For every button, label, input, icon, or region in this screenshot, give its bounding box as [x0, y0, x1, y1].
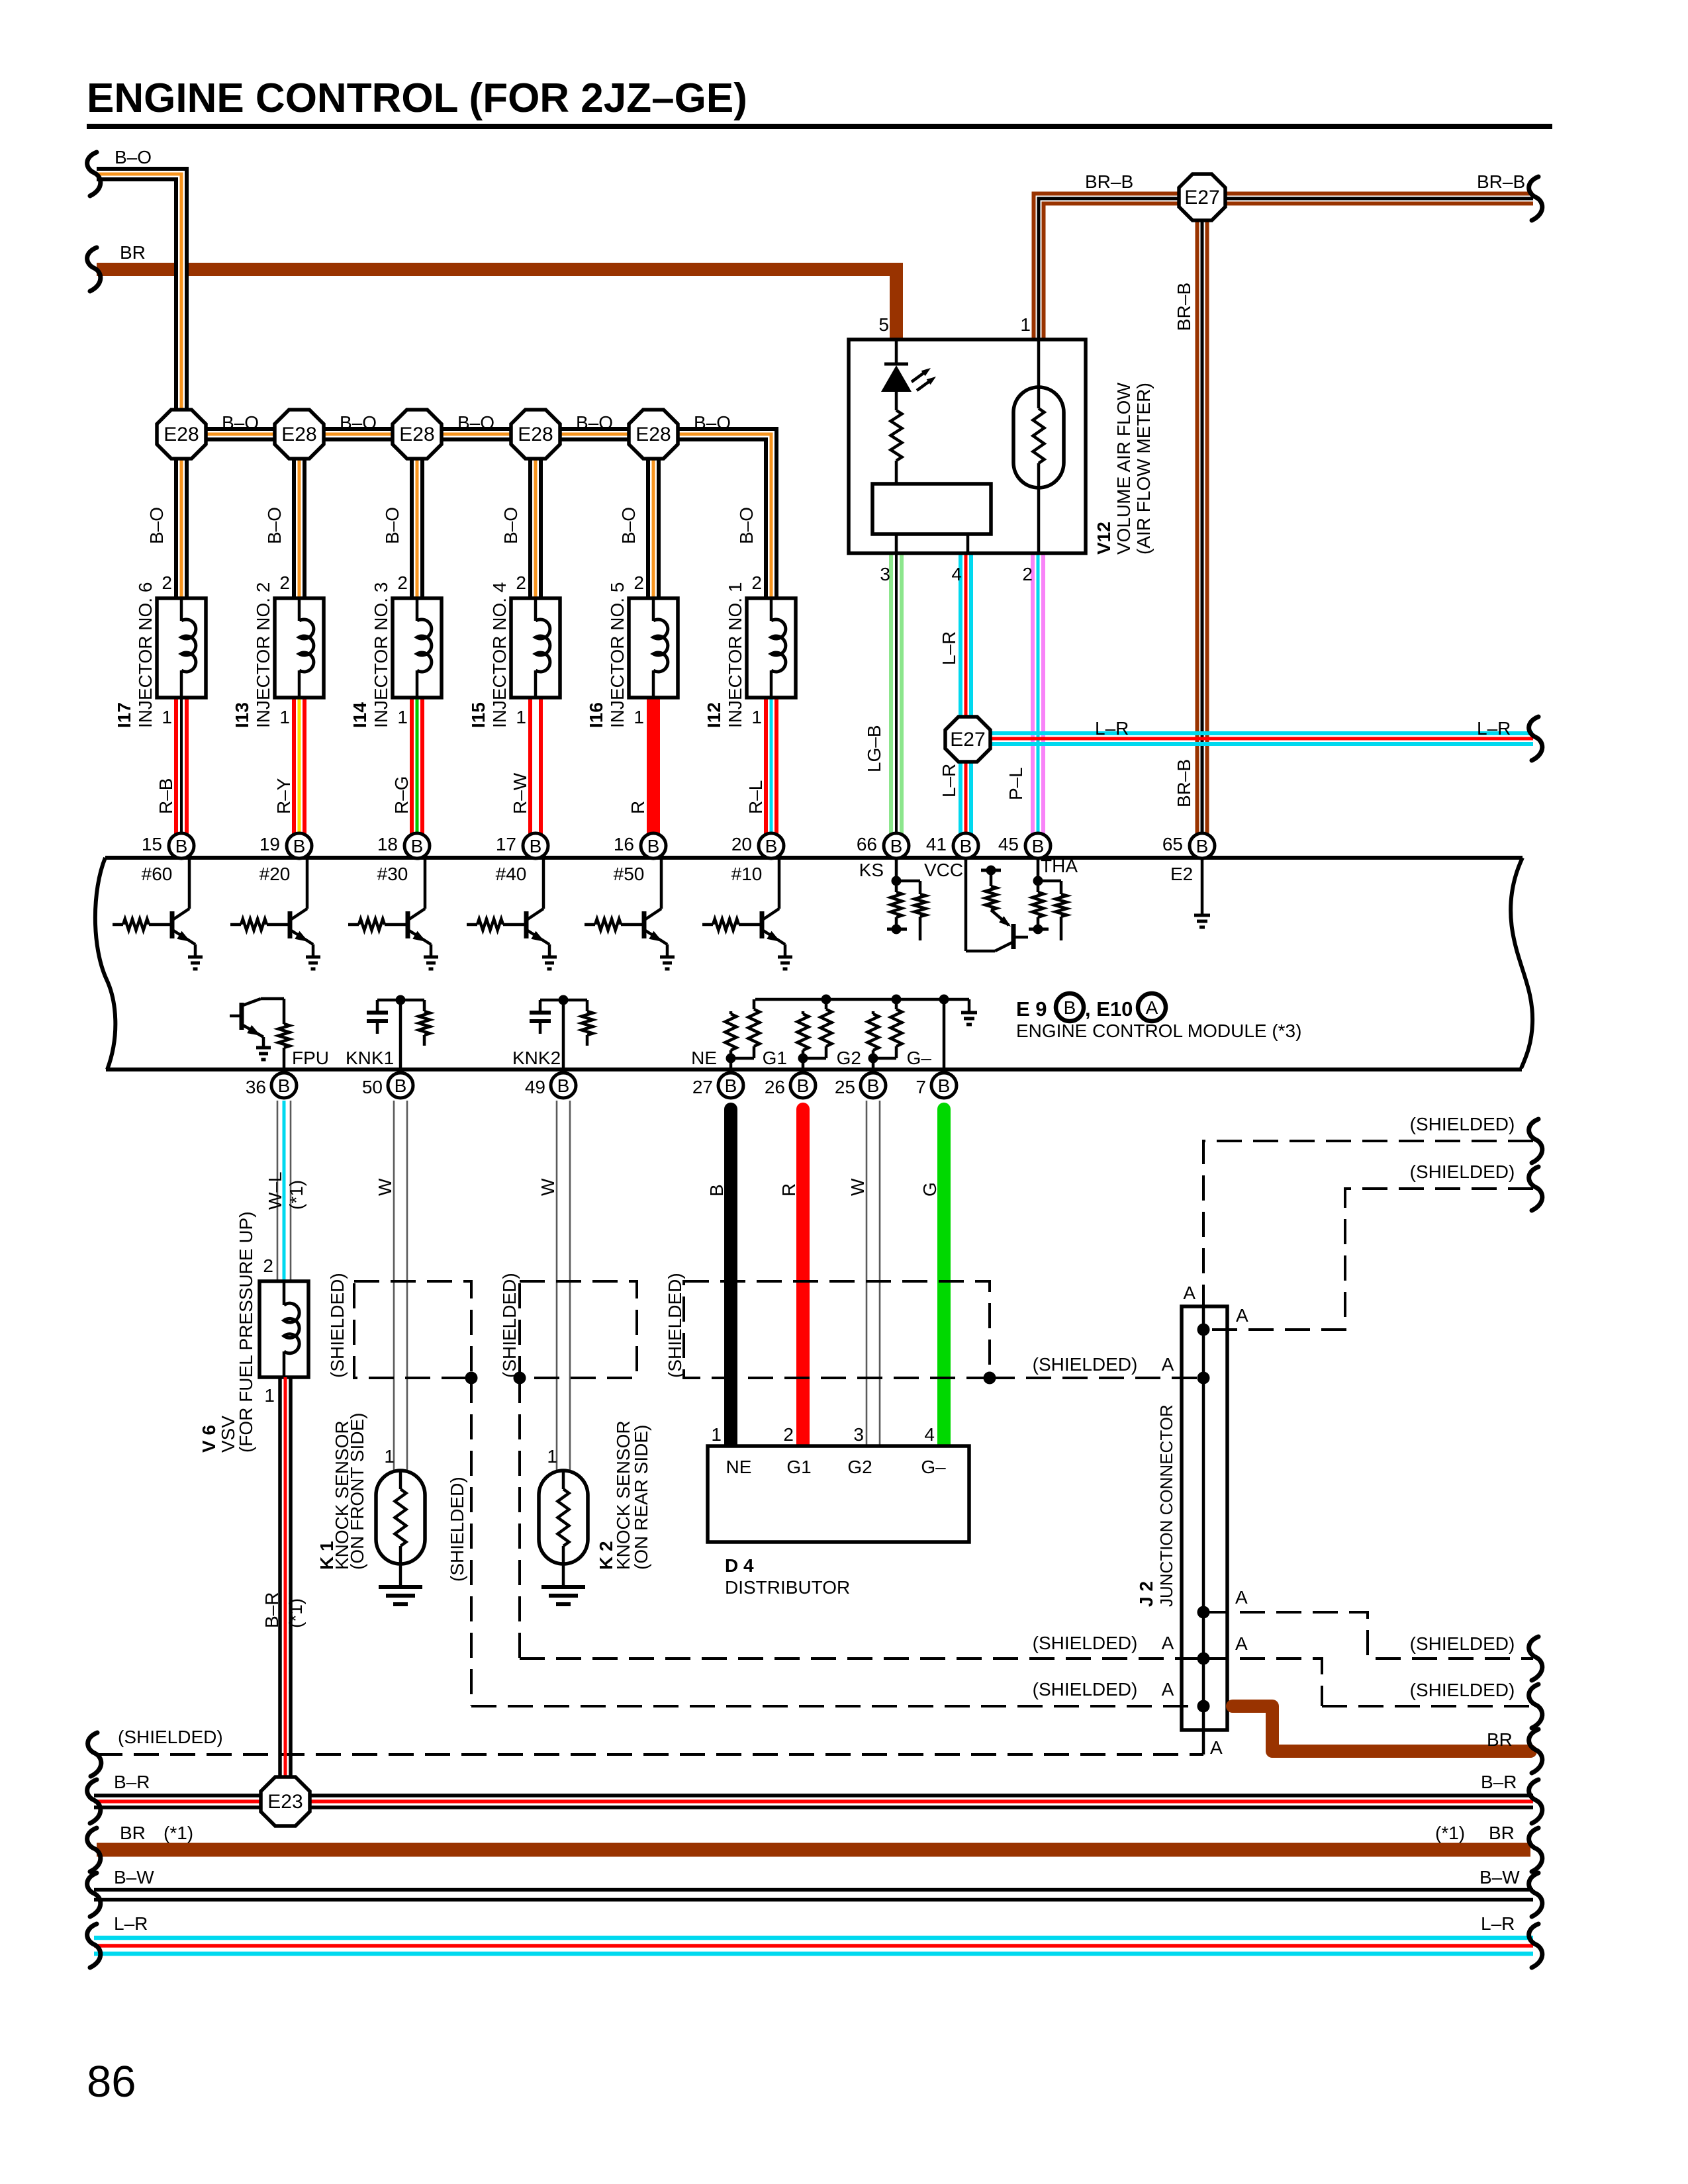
svg-text:(SHIELDED): (SHIELDED) — [1033, 1679, 1138, 1700]
svg-text:1: 1 — [751, 707, 762, 727]
injector I17 wire to ECM — [174, 698, 178, 835]
shield box knock sensor 1 — [354, 1281, 471, 1378]
ECM NE input network — [729, 1011, 733, 1014]
svg-text:E28: E28 — [399, 424, 434, 445]
ECM pin 50 circle B — [388, 1073, 413, 1098]
svg-text:(SHIELDED): (SHIELDED) — [1410, 1114, 1515, 1134]
svg-text:B: B — [938, 1075, 951, 1096]
svg-text:B: B — [530, 836, 542, 856]
svg-text:E 9: E 9 — [1016, 997, 1047, 1021]
resistor in V12 left branch — [891, 410, 902, 461]
ECM THA input network — [1037, 858, 1040, 892]
LED photodiode in V12 — [895, 340, 898, 364]
ECM KNK2 input network — [540, 999, 587, 1002]
connector E28 — [157, 410, 206, 459]
svg-text:KNK1: KNK1 — [346, 1048, 394, 1068]
ECM pin 17 circle B — [523, 833, 548, 858]
svg-text:66: 66 — [857, 834, 877, 854]
svg-text:(SHIELDED): (SHIELDED) — [1410, 1161, 1515, 1182]
svg-text:B: B — [725, 1075, 737, 1096]
svg-text:DISTRIBUTOR: DISTRIBUTOR — [725, 1577, 850, 1598]
svg-text:A: A — [1162, 1633, 1174, 1653]
svg-text:G–: G– — [921, 1457, 946, 1477]
break B-R right — [1529, 1780, 1542, 1823]
svg-text:R–B: R–B — [156, 778, 176, 814]
wire W from pin 49 to knock sensor 2 — [556, 1101, 558, 1471]
svg-text:B: B — [1196, 836, 1209, 856]
svg-text:VCC: VCC — [924, 860, 963, 880]
injector I13 box — [275, 598, 324, 698]
shield wire distributor to J2 — [990, 1377, 1203, 1379]
svg-text:(SHIELDED): (SHIELDED) — [1410, 1680, 1515, 1700]
svg-text:A: A — [1210, 1737, 1223, 1758]
svg-text:1: 1 — [397, 707, 408, 727]
injector I14 wire to ECM — [410, 698, 414, 835]
svg-text:1: 1 — [1020, 314, 1031, 335]
svg-text:3: 3 — [853, 1424, 864, 1445]
injector I17 box — [157, 598, 206, 698]
svg-text:B–O: B–O — [115, 147, 152, 167]
svg-text:41: 41 — [926, 834, 947, 854]
ECM outline bottom edge — [106, 1068, 1522, 1071]
ECM injector driver transistor for #20 — [306, 858, 309, 909]
svg-text:86: 86 — [87, 2057, 136, 2107]
svg-text:I16: I16 — [586, 702, 606, 728]
svg-text:D 4: D 4 — [725, 1555, 754, 1576]
svg-text:2: 2 — [263, 1255, 273, 1276]
ECM injector driver transistor for #10 — [778, 858, 781, 909]
svg-text:B: B — [293, 836, 306, 856]
svg-text:B–O: B–O — [382, 507, 402, 544]
svg-text:E2: E2 — [1170, 864, 1193, 884]
svg-text:P–L: P–L — [1006, 767, 1026, 800]
VSV coil — [283, 1281, 286, 1305]
shield wire top to J2 pin A — [1203, 1141, 1533, 1306]
wire L-R bottom bus — [94, 1936, 1533, 1940]
break B-O left — [87, 152, 101, 196]
svg-text:NE: NE — [691, 1048, 717, 1068]
svg-text:B: B — [647, 836, 660, 856]
svg-text:V 6: V 6 — [199, 1425, 219, 1453]
svg-text:B–R: B–R — [261, 1592, 282, 1628]
svg-text:(SHIELDED): (SHIELDED) — [447, 1477, 467, 1582]
break L-R right — [1529, 1924, 1542, 1968]
flap box in V12 — [872, 484, 991, 534]
svg-text:KNK2: KNK2 — [512, 1048, 561, 1068]
svg-text:INJECTOR NO. 4: INJECTOR NO. 4 — [489, 582, 510, 728]
svg-text:L–R: L–R — [1095, 718, 1129, 739]
ECM pin 65 circle B — [1190, 833, 1215, 858]
wire B-O feed from harness break to E28 row — [97, 174, 181, 602]
J2 internal bus wire — [1202, 1306, 1205, 1754]
injector I12 coil — [770, 598, 773, 621]
injector I16 coil — [652, 598, 655, 621]
svg-text:G1: G1 — [763, 1048, 787, 1068]
svg-text:20: 20 — [731, 834, 752, 854]
svg-text:2: 2 — [397, 572, 408, 593]
break BR left — [87, 1828, 101, 1872]
svg-text:(*1): (*1) — [164, 1823, 193, 1843]
svg-text:4: 4 — [924, 1424, 935, 1445]
svg-text:(*1): (*1) — [286, 1180, 306, 1210]
svg-text:(SHIELDED): (SHIELDED) — [1033, 1633, 1138, 1653]
svg-text:65: 65 — [1162, 834, 1183, 854]
svg-text:2: 2 — [633, 572, 644, 593]
ECM outline top edge — [105, 856, 1523, 860]
connector code A circle — [1138, 993, 1166, 1021]
connector code B circle — [1056, 993, 1084, 1021]
svg-text:A: A — [1236, 1305, 1248, 1326]
injector I15 wire to ECM — [528, 698, 532, 835]
title rule — [87, 124, 1552, 129]
svg-text:J 2: J 2 — [1136, 1581, 1156, 1607]
svg-text:B–O: B–O — [736, 507, 757, 544]
svg-text:, E10: , E10 — [1085, 997, 1133, 1021]
svg-text:I13: I13 — [232, 702, 252, 728]
shield junction dot K2 — [514, 1372, 526, 1385]
break L-R left — [87, 1924, 101, 1968]
injector I16 box — [629, 598, 678, 698]
svg-text:B–W: B–W — [1479, 1867, 1520, 1888]
svg-text:A: A — [1162, 1679, 1174, 1700]
svg-text:B: B — [765, 836, 778, 856]
svg-text:1: 1 — [264, 1385, 275, 1406]
ECM pin 26 circle B — [790, 1073, 816, 1098]
injector I14 coil — [416, 598, 419, 621]
wire B-O bus across E28 connectors — [181, 434, 771, 602]
svg-text:KS: KS — [859, 860, 884, 880]
svg-text:G2: G2 — [837, 1048, 861, 1068]
break BR right — [1529, 1729, 1542, 1773]
shield wire from J2 to lower right break 2 — [1203, 1659, 1533, 1706]
svg-text:B–W: B–W — [114, 1867, 154, 1888]
svg-text:B–O: B–O — [576, 412, 613, 433]
svg-text:#10: #10 — [731, 864, 763, 884]
injector I15 box — [511, 598, 560, 698]
LED arrows — [912, 371, 926, 382]
svg-text:R–L: R–L — [745, 780, 766, 814]
svg-text:NE: NE — [726, 1457, 752, 1477]
svg-text:B: B — [1032, 836, 1045, 856]
svg-text:A: A — [1235, 1587, 1248, 1608]
svg-text:1: 1 — [547, 1446, 557, 1467]
svg-text:I14: I14 — [350, 702, 370, 728]
shield drain wire K1 — [470, 1378, 473, 1706]
ECM pin 15 circle B — [169, 833, 194, 858]
wire LG-B from air flow meter pin 3 to ECM pin 66 — [889, 553, 893, 842]
break BR left — [87, 248, 101, 291]
svg-text:I12: I12 — [704, 702, 724, 728]
ECM KNK1 input network — [377, 999, 424, 1002]
svg-text:BR–B: BR–B — [1085, 171, 1133, 192]
svg-text:25: 25 — [835, 1077, 855, 1097]
wire B-R bottom bus — [94, 1794, 1533, 1797]
svg-text:JUNCTION CONNECTOR: JUNCTION CONNECTOR — [1156, 1404, 1176, 1607]
svg-text:2: 2 — [516, 572, 526, 593]
svg-text:2: 2 — [783, 1424, 794, 1445]
svg-text:B: B — [867, 1075, 880, 1096]
wire B-R from VSV to E23 — [278, 1377, 282, 1801]
svg-text:B: B — [797, 1075, 810, 1096]
J2 pin dot A mid — [1197, 1372, 1210, 1385]
ECM pin 36 circle B — [271, 1073, 297, 1098]
wire W-L from pin 36 to VSV — [277, 1101, 279, 1281]
svg-text:1: 1 — [384, 1446, 395, 1467]
svg-text:(SHIELDED): (SHIELDED) — [499, 1273, 520, 1378]
svg-text:17: 17 — [496, 834, 516, 854]
svg-text:V12: V12 — [1094, 522, 1114, 555]
svg-text:A: A — [1235, 1633, 1248, 1654]
connector E27 mid — [945, 717, 990, 762]
shield wire bottom full width — [97, 1753, 1203, 1756]
svg-text:E28: E28 — [281, 424, 316, 445]
ECM pin 49 circle B — [551, 1073, 576, 1098]
svg-text:2: 2 — [1022, 564, 1033, 584]
svg-text:45: 45 — [998, 834, 1019, 854]
shield junction dot K1 — [465, 1372, 478, 1385]
svg-text:ENGINE CONTROL MODULE (*3): ENGINE CONTROL MODULE (*3) — [1016, 1021, 1301, 1041]
break shielded top right — [1529, 1119, 1542, 1163]
svg-text:INJECTOR NO. 5: INJECTOR NO. 5 — [607, 582, 628, 728]
svg-text:B: B — [278, 1075, 291, 1096]
svg-text:G–: G– — [907, 1048, 932, 1068]
ECM injector driver transistor for #30 — [424, 858, 427, 909]
shield wire K1 drain to J2 — [471, 1705, 1203, 1707]
svg-text:A: A — [1162, 1354, 1174, 1375]
svg-text:#60: #60 — [142, 864, 173, 884]
svg-text:1: 1 — [711, 1424, 722, 1445]
wire BR from J2 to right break — [1233, 1706, 1530, 1751]
svg-text:(SHIELDED): (SHIELDED) — [1033, 1354, 1138, 1375]
break B-R left — [87, 1780, 101, 1823]
svg-text:G1: G1 — [786, 1457, 811, 1477]
ECM pin 45 circle B — [1025, 833, 1051, 858]
connector E28 — [511, 410, 560, 459]
svg-text:B–O: B–O — [264, 507, 285, 544]
svg-text:R: R — [628, 801, 648, 814]
svg-text:BR: BR — [120, 1823, 146, 1843]
J2 junction connector box — [1182, 1306, 1227, 1730]
svg-text:50: 50 — [362, 1077, 383, 1097]
svg-text:B: B — [395, 1075, 407, 1096]
J2 pin dot A lower1 — [1197, 1606, 1210, 1619]
J2 pin dot A lower3 — [1197, 1700, 1210, 1713]
svg-text:B–O: B–O — [457, 412, 494, 433]
svg-text:L–R: L–R — [1477, 718, 1511, 739]
wire B-W bottom bus — [94, 1888, 1533, 1892]
svg-text:5: 5 — [878, 314, 889, 335]
svg-text:2: 2 — [751, 572, 762, 593]
svg-text:(*1): (*1) — [285, 1598, 306, 1628]
svg-text:E27: E27 — [1184, 187, 1219, 208]
ECM KS input network — [895, 858, 898, 892]
svg-text:B: B — [557, 1075, 570, 1096]
svg-text:L–R: L–R — [939, 631, 959, 665]
svg-text:W: W — [375, 1178, 395, 1196]
ECM pin 66 circle B — [884, 833, 909, 858]
injector I15 coil — [534, 598, 538, 621]
svg-text:26: 26 — [765, 1077, 785, 1097]
svg-text:(*1): (*1) — [1435, 1823, 1465, 1843]
svg-text:BR–B: BR–B — [1174, 759, 1194, 807]
svg-text:B–O: B–O — [694, 412, 731, 433]
knock sensor K1 — [376, 1471, 425, 1564]
break B-W left — [87, 1873, 101, 1917]
ECM pin 41 circle B — [953, 833, 978, 858]
connector E27 top — [1179, 174, 1225, 220]
svg-text:E27: E27 — [950, 729, 985, 751]
svg-text:W–L: W–L — [265, 1171, 285, 1210]
svg-text:(SHIELDED): (SHIELDED) — [118, 1727, 223, 1747]
svg-text:3: 3 — [880, 564, 890, 584]
svg-text:G2: G2 — [847, 1457, 872, 1477]
svg-text:E23: E23 — [267, 1791, 303, 1813]
ECM outline left wavy edge — [95, 858, 115, 1069]
svg-text:(FOR FUEL PRESSURE UP): (FOR FUEL PRESSURE UP) — [236, 1211, 256, 1453]
svg-text:(ON FRONT SIDE): (ON FRONT SIDE) — [347, 1413, 367, 1570]
ECM pin 7 circle B — [931, 1073, 957, 1098]
ECM pin 19 circle B — [287, 833, 312, 858]
svg-text:#50: #50 — [614, 864, 645, 884]
connector E28 — [275, 410, 324, 459]
ECM G2 input network — [872, 1011, 875, 1014]
svg-text:R–G: R–G — [391, 776, 412, 814]
wire L-R horizontal from E27 to right break — [968, 731, 1533, 735]
svg-text:R–W: R–W — [510, 772, 530, 814]
break L-R right — [1529, 717, 1542, 760]
svg-text:W: W — [847, 1178, 868, 1196]
svg-text:18: 18 — [377, 834, 398, 854]
ECM injector driver transistor for #60 — [188, 858, 191, 909]
svg-text:1: 1 — [633, 707, 644, 727]
svg-text:B–R: B–R — [1481, 1772, 1517, 1792]
svg-text:B: B — [960, 836, 972, 856]
break shielded bottom left — [88, 1733, 101, 1776]
J2 pin dot A — [1197, 1324, 1210, 1336]
wire R from pin 26 to distributor — [796, 1109, 810, 1446]
ECM pin 25 circle B — [861, 1073, 886, 1098]
svg-text:R: R — [778, 1183, 799, 1197]
svg-text:B: B — [706, 1184, 727, 1197]
svg-text:I15: I15 — [468, 702, 489, 728]
svg-text:L–R: L–R — [114, 1913, 148, 1934]
svg-text:B–O: B–O — [618, 507, 639, 544]
VSV V6 box — [259, 1281, 308, 1377]
svg-text:(AIR FLOW METER): (AIR FLOW METER) — [1133, 383, 1154, 555]
svg-text:(SHIELDED): (SHIELDED) — [1410, 1633, 1515, 1654]
shield box knock sensor 2 — [520, 1281, 637, 1378]
svg-text:19: 19 — [259, 834, 280, 854]
break shielded lower right 2 — [1529, 1684, 1542, 1728]
ECM E2 ground — [1201, 858, 1204, 914]
ECM outline right wavy edge — [1511, 858, 1532, 1068]
shield wire second to J2 — [1203, 1189, 1533, 1330]
svg-text:A: A — [1183, 1283, 1196, 1303]
svg-text:4: 4 — [951, 564, 962, 584]
wire BR-B from air flow meter pin 1 up and right through E27 to break — [1039, 199, 1533, 341]
wire W from pin 50 to knock sensor 1 — [393, 1101, 395, 1471]
connector E28 — [393, 410, 442, 459]
svg-text:B–O: B–O — [222, 412, 259, 433]
svg-text:16: 16 — [614, 834, 634, 854]
distributor D4 box — [708, 1446, 969, 1542]
svg-text:INJECTOR NO. 3: INJECTOR NO. 3 — [371, 582, 391, 728]
svg-text:BR–B: BR–B — [1477, 171, 1525, 192]
svg-text:INJECTOR NO. 1: INJECTOR NO. 1 — [725, 582, 745, 728]
svg-text:2: 2 — [162, 572, 172, 593]
wire G from pin 7 to distributor — [937, 1109, 951, 1446]
connector E28 — [629, 410, 678, 459]
injector I12 wire to ECM — [764, 698, 768, 835]
svg-text:B–O: B–O — [146, 507, 167, 544]
wire W from pin 25 to distributor — [866, 1101, 868, 1446]
svg-text:FPU: FPU — [292, 1048, 329, 1068]
svg-text:E28: E28 — [635, 424, 671, 445]
connector E23 — [261, 1777, 310, 1826]
air-flow-meter V12 box — [849, 340, 1086, 553]
J2 pin dot A lower2 — [1197, 1653, 1210, 1665]
shield box distributor — [684, 1281, 990, 1378]
svg-text:B–O: B–O — [500, 507, 521, 544]
ECM pin 18 circle B — [404, 833, 430, 858]
wire L-R from air flow meter pin 4 through E27 to ECM pin 41 — [959, 553, 962, 842]
wire B-O drop to injector column 3 — [410, 434, 424, 602]
ECM G- wire — [943, 999, 946, 1073]
wire BR feed to air flow meter pin 5 — [97, 269, 896, 341]
shield drain wire K2 — [518, 1378, 521, 1659]
shield wire from J2 to lower right break 1 — [1203, 1612, 1533, 1659]
wire B-O drop to injector column 5 — [646, 434, 661, 602]
svg-text:#20: #20 — [259, 864, 291, 884]
svg-text:BR: BR — [1489, 1823, 1515, 1843]
ECM pin 20 circle B — [759, 833, 784, 858]
svg-text:LG–B: LG–B — [864, 725, 884, 772]
injector I16 wire to ECM — [647, 698, 660, 835]
svg-text:#40: #40 — [496, 864, 527, 884]
svg-text:W: W — [538, 1178, 558, 1196]
ECM NE/G1/G2 pull-up rail — [755, 998, 969, 1001]
svg-text:B–O: B–O — [340, 412, 377, 433]
svg-text:L–R: L–R — [1481, 1913, 1515, 1934]
svg-text:B: B — [175, 836, 188, 856]
svg-text:ENGINE CONTROL (FOR 2JZ–GE): ENGINE CONTROL (FOR 2JZ–GE) — [87, 75, 747, 121]
svg-text:G: G — [919, 1182, 940, 1197]
hot wire element oval in V12 — [1037, 340, 1041, 387]
ECM VCC internal transistor — [964, 858, 968, 951]
injector I14 box — [393, 598, 442, 698]
svg-text:INJECTOR NO. 2: INJECTOR NO. 2 — [253, 582, 273, 728]
break shielded second right — [1529, 1167, 1542, 1210]
svg-text:E28: E28 — [164, 424, 199, 445]
wire P-L from air flow meter pin 2 to ECM pin 45 — [1031, 553, 1035, 842]
shield wire K2 drain to J2 — [520, 1657, 1203, 1660]
svg-text:49: 49 — [525, 1077, 545, 1097]
wire BR-B vertical from E27 down to ECM pin 65 — [1196, 199, 1209, 842]
svg-text:E28: E28 — [518, 424, 553, 445]
svg-text:B: B — [1064, 997, 1076, 1018]
svg-text:27: 27 — [692, 1077, 713, 1097]
svg-text:A: A — [1146, 997, 1158, 1018]
injector I13 coil — [298, 598, 301, 621]
wire B from pin 27 to distributor — [724, 1109, 737, 1446]
break shielded lower right 1 — [1529, 1637, 1542, 1680]
svg-text:(ON REAR SIDE): (ON REAR SIDE) — [631, 1425, 651, 1570]
svg-text:15: 15 — [142, 834, 162, 854]
svg-text:1: 1 — [516, 707, 526, 727]
svg-text:B–R: B–R — [114, 1772, 150, 1792]
svg-text:36: 36 — [246, 1077, 266, 1097]
svg-text:INJECTOR NO. 6: INJECTOR NO. 6 — [135, 582, 156, 728]
